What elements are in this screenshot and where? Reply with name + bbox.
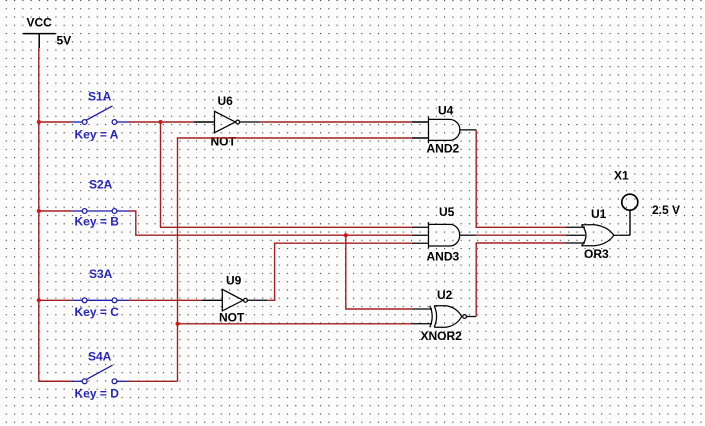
- svg-text:S4A: S4A: [88, 350, 112, 364]
- and-gate U5: [412, 222, 476, 248]
- switch S2A: [72, 209, 129, 214]
- junction rail row B: [37, 209, 41, 213]
- wire D branch to XNOR bottom input: [178, 323, 413, 325]
- svg-text:AND2: AND2: [427, 142, 460, 156]
- svg-text:OR3: OR3: [584, 247, 609, 261]
- wire VCC rail vertical: [39, 48, 72, 381]
- probe X1: [622, 194, 638, 210]
- switch S4A: [72, 365, 129, 383]
- junction rail row C: [37, 298, 41, 302]
- wire row B to U5 middle: [129, 211, 413, 235]
- switch S3A: [72, 298, 129, 303]
- svg-text:VCC: VCC: [27, 16, 53, 30]
- wire row B left: [39, 210, 72, 212]
- junction node B: [344, 233, 348, 237]
- wire row C to U9: [129, 299, 203, 301]
- wire row A right to U6: [129, 121, 195, 123]
- junction node A: [158, 120, 162, 124]
- wire U1 output to probe: [629, 210, 631, 235]
- svg-text:U1: U1: [591, 207, 607, 221]
- wire row D to vertical: [129, 380, 178, 382]
- wire node A branch vertical to U5: [161, 122, 413, 227]
- svg-text:NOT: NOT: [219, 311, 245, 325]
- svg-text:AND3: AND3: [427, 250, 460, 264]
- inverter U9: [222, 289, 267, 311]
- junction node D: [175, 322, 179, 326]
- wire U4 input stub top: [412, 121, 429, 123]
- svg-text:Key = C: Key = C: [75, 305, 120, 319]
- svg-text:2.5 V: 2.5 V: [652, 203, 680, 217]
- svg-text:5V: 5V: [57, 33, 72, 47]
- svg-text:U6: U6: [218, 94, 234, 108]
- svg-text:Key = D: Key = D: [75, 387, 120, 401]
- wire U6 input stub: [194, 121, 215, 123]
- wire row D left: [39, 380, 72, 382]
- wire U2 output to U1 bottom: [476, 243, 566, 317]
- junction rail row A: [37, 120, 41, 124]
- wire U5 output to U1 middle: [476, 234, 567, 236]
- svg-text:Key = A: Key = A: [75, 128, 119, 142]
- svg-text:S3A: S3A: [89, 267, 113, 281]
- or-gate U1: [566, 225, 630, 246]
- wire B branch to XNOR top input: [346, 235, 412, 309]
- svg-text:X1: X1: [614, 169, 629, 183]
- wire U9 input stub: [202, 299, 222, 301]
- svg-text:XNOR2: XNOR2: [421, 329, 463, 343]
- svg-text:S2A: S2A: [89, 178, 113, 192]
- switch S1A: [72, 106, 129, 125]
- svg-text:U9: U9: [226, 274, 242, 288]
- wire U6 output to U4: [259, 121, 412, 123]
- xnor-gate U2: [412, 306, 476, 327]
- svg-text:S1A: S1A: [88, 90, 112, 104]
- svg-text:NOT: NOT: [211, 135, 237, 149]
- wire D branch to U4 bottom input: [178, 138, 413, 381]
- svg-text:U5: U5: [439, 205, 455, 219]
- inverter U6: [215, 111, 260, 132]
- svg-text:U2: U2: [437, 288, 453, 302]
- wire U9 output to U5 bottom: [267, 243, 412, 300]
- wire row C left: [39, 299, 72, 301]
- wire U4 input stub bottom: [412, 137, 429, 139]
- power VCC symbol: [23, 34, 56, 48]
- svg-text:U4: U4: [438, 104, 454, 118]
- and-gate U4: [429, 117, 477, 144]
- svg-text:Key = B: Key = B: [75, 215, 120, 229]
- wire row A left: [39, 121, 72, 123]
- wire U4 output to U1 top: [476, 130, 566, 227]
